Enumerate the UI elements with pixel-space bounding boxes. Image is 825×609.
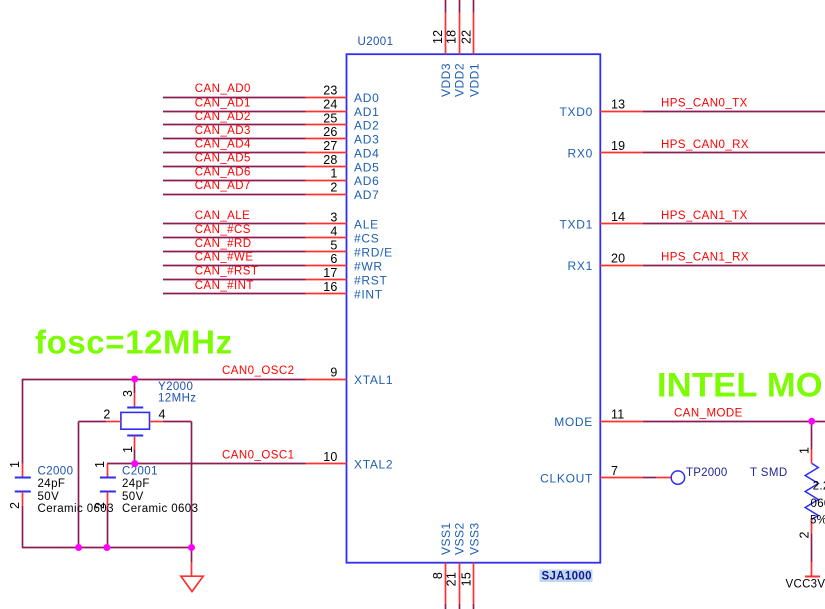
svg-text:12MHz: 12MHz [158, 393, 196, 405]
node junction pin2-vertical / ground bus [75, 544, 82, 551]
pin 25 AD2 stub [306, 124, 347, 126]
svg-text:4: 4 [330, 224, 337, 238]
svg-text:50V: 50V [122, 491, 144, 503]
svg-text:23: 23 [323, 83, 337, 97]
wire net CAN_#WE [163, 265, 306, 267]
svg-text:3: 3 [121, 390, 135, 397]
svg-text:2: 2 [103, 407, 110, 421]
svg-text:10: 10 [323, 450, 337, 464]
svg-text:2: 2 [798, 531, 812, 538]
svg-text:TXD1: TXD1 [560, 218, 593, 232]
svg-text:17: 17 [323, 266, 337, 280]
wire crystal pin 1 to OSC1 [134, 449, 136, 463]
pin 26 AD3 stub [306, 138, 347, 140]
svg-text:XTAL1: XTAL1 [354, 373, 393, 387]
svg-text:HPS_CAN0_TX: HPS_CAN0_TX [661, 97, 748, 109]
svg-text:16: 16 [323, 280, 337, 294]
svg-text:CAN_AD7: CAN_AD7 [195, 180, 251, 192]
svg-text:5: 5 [330, 238, 337, 252]
wire net VDD (pin 22) [473, 0, 475, 13]
wire net CAN_#RST [163, 279, 306, 281]
svg-text:2: 2 [330, 181, 337, 195]
wire crystal pin4 vertical down [191, 422, 193, 548]
svg-text:5%: 5% [810, 515, 825, 527]
node junction C2001 / ground bus [103, 544, 110, 551]
svg-text:6: 6 [330, 252, 337, 266]
svg-text:3: 3 [330, 210, 337, 224]
wire net HPS_CAN1_TX [643, 223, 825, 225]
ground [191, 563, 193, 577]
svg-text:CAN_AD2: CAN_AD2 [195, 111, 251, 123]
wire net HPS_CAN0_RX [643, 152, 825, 154]
pin 10 XTAL2 stub [306, 463, 347, 465]
pin 11 MODE stub [600, 421, 643, 423]
svg-text:TXD0: TXD0 [560, 105, 593, 119]
pin 23 AD0 stub [306, 97, 347, 99]
wire net CAN_MODE [643, 421, 825, 423]
ground stub wire [191, 548, 193, 563]
pin 27 AD4 stub [306, 152, 347, 154]
pin 16 #INT stub [306, 293, 347, 295]
pin 2 AD7 stub [306, 194, 347, 196]
svg-text:CAN_AD6: CAN_AD6 [195, 166, 251, 178]
pin 20 RX1 stub [600, 265, 643, 267]
svg-text:CAN_ALE: CAN_ALE [195, 210, 251, 222]
svg-text:22: 22 [460, 30, 474, 44]
svg-text:HPS_CAN1_RX: HPS_CAN1_RX [661, 251, 749, 263]
svg-text:24pF: 24pF [38, 478, 66, 490]
svg-text:14: 14 [611, 210, 625, 224]
wire net CAN_AD4 [163, 152, 306, 154]
crystal Y2000 pin 1 stub [134, 436, 136, 450]
svg-text:VSS3: VSS3 [468, 522, 482, 555]
wire left vertical (OSC2 to C2000) [22, 379, 24, 464]
wire net HPS_CAN1_RX [643, 265, 825, 267]
wire ground bus bottom [22, 547, 192, 549]
wire C2001 pin2 to ground bus [107, 506, 109, 548]
svg-text:VCC3V3: VCC3V3 [786, 579, 825, 591]
svg-text:VDD2: VDD2 [453, 63, 467, 97]
wire net CAN_#RD [163, 251, 306, 253]
svg-text:SJA1000: SJA1000 [542, 571, 592, 583]
node junction ground symbol / ground bus [188, 544, 195, 551]
svg-text:AD7: AD7 [354, 188, 379, 202]
svg-text:CAN_AD4: CAN_AD4 [195, 139, 251, 151]
svg-text:11: 11 [611, 408, 624, 422]
svg-text:12: 12 [431, 30, 445, 44]
power VCC3V3 stub [811, 562, 813, 576]
svg-text:9: 9 [330, 365, 337, 379]
svg-text:20: 20 [611, 252, 625, 266]
wire net VDD (pin 18) [459, 0, 461, 13]
svg-text:2.2K: 2.2K [813, 481, 825, 493]
svg-text:INTEL MODE: INTEL MODE [657, 367, 825, 405]
pin 17 #RST stub [306, 279, 347, 281]
svg-text:ALE: ALE [354, 218, 379, 232]
capacitor C2001 pin 2 stub [107, 492, 109, 506]
wire net CAN_ALE [163, 223, 306, 225]
pin 15 VSS3 stub [473, 563, 475, 604]
capacitor C2001 top plate [100, 477, 116, 479]
svg-text:CAN_AD1: CAN_AD1 [195, 97, 251, 109]
test point TP2000 pin stub [656, 477, 671, 479]
svg-text:AD0: AD0 [354, 91, 379, 105]
svg-text:AD1: AD1 [354, 105, 379, 119]
svg-text:7: 7 [611, 464, 618, 478]
pin 24 AD1 stub [306, 111, 347, 113]
pin 18 VDD2 stub [459, 13, 461, 55]
capacitor C2000 bottom plate [15, 491, 31, 493]
wire resistor to power symbol [811, 533, 813, 562]
svg-text:AD2: AD2 [354, 119, 379, 133]
wire net CAN_AD2 [163, 124, 306, 126]
svg-text:1: 1 [330, 167, 337, 181]
wire net VSS (pin 8) [445, 604, 447, 609]
svg-text:VSS1: VSS1 [439, 522, 453, 555]
pin 12 VDD3 stub [445, 13, 447, 55]
pin 6 #WR stub [306, 265, 347, 267]
capacitor C2000 pin 2 stub [22, 492, 24, 506]
svg-text:AD4: AD4 [354, 147, 379, 161]
wire net CAN0_OSC1 [107, 463, 306, 465]
wire net CAN_AD5 [163, 166, 306, 168]
part value SJA1000 [540, 570, 593, 583]
wire crystal pin2 horizontal [79, 421, 107, 423]
svg-text:13: 13 [611, 98, 625, 112]
svg-text:1: 1 [121, 446, 135, 453]
op-amp U2001 IC body SJA1000 [347, 54, 601, 563]
pin 19 RX0 stub [600, 152, 643, 154]
svg-text:T SMD: T SMD [750, 467, 788, 479]
svg-text:VSS2: VSS2 [453, 522, 467, 555]
pin 9 XTAL1 stub [306, 379, 347, 381]
capacitor C2001 bottom plate [100, 491, 116, 493]
wire resistor branch vertical [811, 421, 813, 449]
svg-text:1: 1 [93, 461, 107, 468]
svg-text:#RD/E: #RD/E [354, 246, 393, 260]
svg-text:#RST: #RST [354, 273, 387, 287]
pin 1 AD6 stub [306, 180, 347, 182]
svg-text:#WR: #WR [354, 260, 383, 274]
resistor R pin 2 stub [811, 519, 813, 533]
svg-text:CAN_MODE: CAN_MODE [674, 408, 743, 420]
wire crystal pin2 vertical down [78, 422, 80, 548]
wire net CAN_#CS [163, 237, 306, 239]
svg-text:CAN_AD0: CAN_AD0 [195, 83, 251, 95]
svg-text:25: 25 [323, 111, 337, 125]
svg-text:CAN_#RD: CAN_#RD [195, 238, 252, 250]
wire net VSS (pin 21) [459, 604, 461, 609]
wire CLKOUT to test point [643, 477, 656, 479]
svg-text:C2000: C2000 [38, 466, 74, 478]
wire crystal pin 3 [134, 379, 136, 393]
svg-text:18: 18 [445, 30, 459, 44]
svg-text:HPS_CAN0_RX: HPS_CAN0_RX [661, 139, 749, 151]
wire net CAN_AD6 [163, 180, 306, 182]
svg-text:26: 26 [323, 125, 337, 139]
wire crystal pin4 horizontal [163, 421, 192, 423]
svg-text:Y2000: Y2000 [158, 381, 193, 393]
svg-text:1: 1 [8, 461, 22, 468]
crystal Y2000 pin 4 stub [150, 421, 163, 423]
svg-text:24pF: 24pF [122, 478, 150, 490]
svg-text:#CS: #CS [354, 232, 379, 246]
svg-text:CAN_#CS: CAN_#CS [195, 224, 251, 236]
svg-text:HPS_CAN1_TX: HPS_CAN1_TX [661, 210, 748, 222]
svg-text:U2001: U2001 [358, 36, 394, 48]
pin 8 VSS1 stub [445, 563, 447, 604]
crystal Y2000 bottom plate [127, 435, 143, 437]
wire net CAN0_OSC2 [22, 379, 306, 381]
svg-text:50V: 50V [38, 491, 60, 503]
resistor R pin 1 stub [811, 449, 813, 463]
crystal Y2000 pin 3 stub [134, 393, 136, 407]
wire net VDD (pin 12) [445, 0, 447, 13]
svg-text:VDD3: VDD3 [439, 63, 453, 97]
svg-text:27: 27 [323, 139, 337, 153]
wire net CAN_AD3 [163, 138, 306, 140]
svg-text:0603: 0603 [811, 498, 825, 510]
wire net CAN_AD7 [163, 194, 306, 196]
crystal Y2000 body [121, 412, 150, 429]
wire net CAN_#INT [163, 293, 306, 295]
wire net CAN_AD0 [163, 97, 306, 99]
pin 3 ALE stub [306, 223, 347, 225]
capacitor C2000 pin 1 stub [22, 463, 24, 477]
pin 7 CLKOUT stub [600, 477, 643, 479]
power VCC3V3 bar [805, 576, 820, 578]
pin 14 TXD1 stub [600, 223, 643, 225]
svg-text:RX0: RX0 [568, 147, 593, 161]
crystal Y2000 pin 2 stub [106, 421, 121, 423]
node junction crystal pin3 / OSC2 [131, 376, 138, 383]
svg-text:4: 4 [159, 408, 166, 422]
svg-text:#INT: #INT [354, 288, 383, 302]
pin 21 VSS2 stub [459, 563, 461, 604]
svg-text:Ceramic 0603: Ceramic 0603 [122, 503, 198, 515]
svg-text:CAN_#RST: CAN_#RST [195, 266, 259, 278]
svg-text:2: 2 [8, 502, 22, 509]
svg-text:AD6: AD6 [354, 174, 379, 188]
svg-text:21: 21 [445, 572, 459, 586]
wire net CAN_AD1 [163, 111, 306, 113]
svg-text:AD5: AD5 [354, 160, 379, 174]
test point TP2000 circle [671, 471, 684, 484]
crystal Y2000 top plate [127, 407, 143, 409]
svg-text:fosc=12MHz: fosc=12MHz [35, 324, 233, 361]
svg-text:1: 1 [798, 447, 812, 454]
capacitor C2000 top plate [15, 477, 31, 479]
svg-text:RX1: RX1 [568, 259, 593, 273]
node junction crystal pin1 / OSC1 [131, 460, 138, 467]
svg-text:19: 19 [611, 139, 625, 153]
svg-text:TP2000: TP2000 [686, 467, 727, 479]
pin 5 #RD/E stub [306, 251, 347, 253]
svg-text:2: 2 [93, 502, 107, 509]
svg-text:MODE: MODE [554, 415, 593, 429]
svg-text:15: 15 [460, 572, 474, 586]
svg-text:CAN_AD5: CAN_AD5 [195, 153, 251, 165]
pin 28 AD5 stub [306, 166, 347, 168]
wire C2000 pin2 to ground bus [22, 506, 24, 548]
node junction CAN_MODE / resistor [808, 418, 815, 425]
wire net VSS (pin 15) [473, 604, 475, 609]
svg-text:CAN_AD3: CAN_AD3 [195, 125, 251, 137]
resistor R 2.2K zigzag [805, 463, 818, 519]
pin 13 TXD0 stub [600, 111, 643, 113]
svg-text:CAN_#WE: CAN_#WE [195, 252, 254, 264]
pin 22 VDD1 stub [473, 13, 475, 55]
capacitor C2001 pin 1 stub [107, 464, 109, 478]
svg-text:CAN_#INT: CAN_#INT [195, 280, 254, 292]
svg-text:CLKOUT: CLKOUT [540, 471, 593, 485]
svg-text:AD3: AD3 [354, 133, 379, 147]
svg-text:CAN0_OSC1: CAN0_OSC1 [222, 450, 294, 462]
svg-text:8: 8 [431, 572, 445, 579]
svg-text:C2001: C2001 [122, 466, 158, 478]
pin 4 #CS stub [306, 237, 347, 239]
svg-text:28: 28 [323, 153, 337, 167]
svg-text:XTAL2: XTAL2 [354, 457, 393, 471]
svg-text:VDD1: VDD1 [468, 63, 482, 97]
wire net HPS_CAN0_TX [643, 111, 825, 113]
svg-text:CAN0_OSC2: CAN0_OSC2 [222, 365, 294, 377]
svg-text:24: 24 [323, 98, 337, 112]
